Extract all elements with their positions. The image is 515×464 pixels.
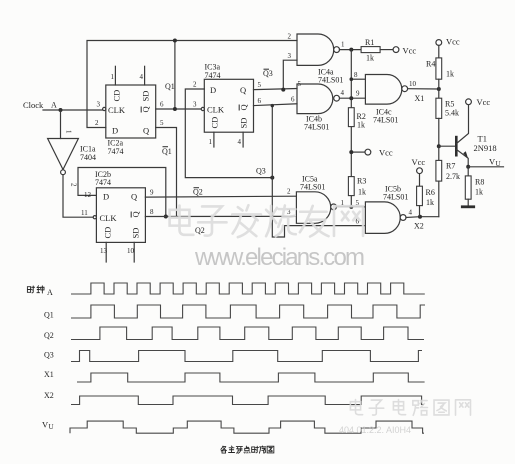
flipflop IC2a 7474 xyxy=(103,85,156,156)
svg-text:7404: 7404 xyxy=(80,153,96,162)
svg-text:7474: 7474 xyxy=(108,147,124,156)
svg-text:7474: 7474 xyxy=(95,178,111,187)
svg-text:X1: X1 xyxy=(44,370,54,379)
svg-text:12: 12 xyxy=(84,191,92,199)
svg-text:Q2: Q2 xyxy=(44,331,54,340)
svg-text:13: 13 xyxy=(100,247,108,255)
svg-text:A: A xyxy=(51,101,57,110)
svg-text:X2: X2 xyxy=(414,222,424,231)
svg-text:A: A xyxy=(47,288,53,297)
svg-text:Q: Q xyxy=(131,211,141,217)
resistor R1 1k xyxy=(361,38,393,63)
svg-text:3: 3 xyxy=(97,101,101,109)
svg-text:4: 4 xyxy=(140,73,144,81)
wire IC4a output pin 1 to R1 xyxy=(340,41,362,52)
svg-text:8: 8 xyxy=(354,71,358,79)
svg-text:2N918: 2N918 xyxy=(474,143,497,153)
svg-text:R3: R3 xyxy=(357,177,366,186)
power Vcc at R6 xyxy=(412,157,426,174)
label VU row xyxy=(42,420,54,432)
inverter U1 IC1a 7404 xyxy=(48,139,96,175)
wire IC2a pin 6 output to IC3a CLK pin 3 xyxy=(156,101,202,110)
pin stub IC2b pin10 xyxy=(127,242,135,262)
nand gate IC4b 74LS01 xyxy=(297,84,340,132)
svg-text:1: 1 xyxy=(65,130,73,134)
node Q1 vertical xyxy=(97,39,177,112)
label Q3 row xyxy=(44,351,54,360)
svg-text:CD: CD xyxy=(103,227,113,239)
waveform X2 xyxy=(71,396,424,405)
svg-text:1k: 1k xyxy=(358,188,366,197)
svg-text:SD: SD xyxy=(131,228,141,239)
label Q2 row xyxy=(44,331,54,340)
svg-text:1: 1 xyxy=(111,73,115,81)
svg-text:1k: 1k xyxy=(426,198,434,207)
wire IC4c output pin 10 to X1 node xyxy=(408,80,439,89)
watermark bottom small text xyxy=(339,425,411,435)
svg-text:CLK: CLK xyxy=(100,213,118,223)
svg-text:D: D xyxy=(112,126,118,136)
wire branch up to IC4a pin 3 xyxy=(281,52,297,92)
svg-text:Q: Q xyxy=(131,192,137,202)
svg-text:Q2: Q2 xyxy=(193,188,203,197)
pin stub IC3a pin1 xyxy=(209,132,214,147)
svg-text:6: 6 xyxy=(258,97,262,105)
svg-text:Clock: Clock xyxy=(23,100,44,110)
svg-text:Q1: Q1 xyxy=(162,147,172,156)
nand gate IC5a 74LS01 xyxy=(296,175,336,224)
svg-text:Vcc: Vcc xyxy=(403,46,417,56)
wire top feedback line Q1 to IC4a pin 2 and down to IC2a D pin 2 xyxy=(87,33,297,128)
wire IC2b pin 8 to IC5a pin 3 xyxy=(145,208,296,217)
svg-text:R7: R7 xyxy=(446,162,455,171)
svg-text:74LS01: 74LS01 xyxy=(318,76,343,85)
flipflop IC3a 7474 xyxy=(201,63,253,133)
label clock row xyxy=(47,288,53,297)
label Q3bar xyxy=(263,69,273,78)
svg-text:1: 1 xyxy=(209,138,213,146)
wire IC3a D pin 2 feedback from Q3bar node xyxy=(185,81,272,178)
svg-text:2: 2 xyxy=(287,188,291,196)
svg-text:D: D xyxy=(103,192,109,202)
svg-text:9: 9 xyxy=(150,189,154,197)
svg-text:X2: X2 xyxy=(44,391,54,400)
svg-text:10: 10 xyxy=(409,80,417,88)
nand gate IC4a 74LS01 xyxy=(297,34,343,85)
svg-text:1k: 1k xyxy=(446,70,454,79)
svg-text:R4: R4 xyxy=(426,60,435,69)
resistor R3 1k xyxy=(348,177,366,197)
svg-text:1k: 1k xyxy=(366,54,374,63)
svg-text:Q3: Q3 xyxy=(263,69,273,78)
wire IC3a pin 6 to IC4b pin 6 xyxy=(254,96,298,106)
svg-text:6: 6 xyxy=(291,96,295,104)
wire inverter output to IC2b CLK pin 11 xyxy=(63,175,93,218)
nand gate IC5b 74LS01 xyxy=(365,185,408,234)
svg-text:9: 9 xyxy=(356,90,360,98)
wire IC4b output pin 4 to IC4c pin 9 xyxy=(340,89,366,100)
wire IC5b output pin 4 to X2 line xyxy=(406,209,439,218)
wire Clock input line xyxy=(43,109,104,111)
svg-text:Vcc: Vcc xyxy=(446,37,460,47)
svg-text:74LS01: 74LS01 xyxy=(383,193,408,202)
svg-text:1k: 1k xyxy=(475,188,483,197)
watermark elecians url xyxy=(194,244,365,271)
svg-text:5: 5 xyxy=(160,119,164,127)
svg-text:74LS01: 74LS01 xyxy=(304,123,329,132)
svg-text:R1: R1 xyxy=(365,38,374,47)
pin stub IC2a pin4 SD xyxy=(140,66,145,85)
svg-text:Q: Q xyxy=(240,85,246,95)
svg-text:www.elecians.com: www.elecians.com xyxy=(194,244,365,271)
label Clock xyxy=(23,100,44,110)
svg-text:404 01.2.2. AI0H4: 404 01.2.2. AI0H4 xyxy=(339,425,411,435)
svg-text:Q3: Q3 xyxy=(256,167,266,176)
svg-text:4: 4 xyxy=(238,138,242,146)
pin stub IC2a pin1 CD xyxy=(111,66,116,85)
svg-text:CLK: CLK xyxy=(108,105,126,115)
waveform X1 xyxy=(77,373,425,382)
svg-text:Q2: Q2 xyxy=(195,226,205,235)
svg-text:Q1: Q1 xyxy=(165,82,175,91)
wire IC2b feedback loop pin 8 to D pin 12 xyxy=(78,168,168,219)
svg-text:5.4k: 5.4k xyxy=(445,109,459,118)
svg-text:8: 8 xyxy=(150,208,154,216)
svg-text:4: 4 xyxy=(341,89,345,97)
wire bus from IC4a output down to R2 R3 xyxy=(350,50,352,207)
svg-text:Vcc: Vcc xyxy=(379,148,393,158)
caption timing diagram title xyxy=(221,446,274,453)
label X1 row xyxy=(44,370,54,379)
transistor T1 2N918 xyxy=(456,105,496,167)
svg-text:Q: Q xyxy=(239,104,249,110)
power Vcc at R4 xyxy=(436,37,460,47)
waveform Q1 xyxy=(71,305,425,318)
svg-text:T1: T1 xyxy=(478,134,487,144)
node emitter output Vu xyxy=(466,157,503,169)
svg-text:U: U xyxy=(49,423,54,431)
svg-text:CD: CD xyxy=(112,90,122,102)
resistor R4 1k xyxy=(426,45,454,89)
node X1 xyxy=(415,87,441,103)
resistor R6 1k xyxy=(417,174,435,217)
svg-text:R6: R6 xyxy=(426,188,435,197)
svg-text:7474: 7474 xyxy=(205,71,221,80)
node base junction xyxy=(437,144,455,148)
wire IC2a pin 5 output Q1bar down xyxy=(156,119,177,217)
wire IC2b pin 9 to IC5a pin 2 xyxy=(145,188,296,198)
label clock row shizhong xyxy=(27,286,44,293)
wire Q3bar vertical from IC3a pin6 down and jog to IC5b pin 6 xyxy=(271,104,366,237)
svg-text:74LS01: 74LS01 xyxy=(373,116,398,125)
pin stub IC3a pin4 xyxy=(238,132,244,147)
svg-text:10: 10 xyxy=(127,247,135,255)
svg-text:IC2b: IC2b xyxy=(95,170,111,179)
waveform Q2 xyxy=(71,327,424,340)
wire A to inverter input xyxy=(61,110,73,139)
svg-text:2.7k: 2.7k xyxy=(446,172,460,181)
waveform Q3 xyxy=(71,351,422,362)
wire IC5a output pin 1 to IC5b pin 5 xyxy=(337,199,366,209)
svg-text:1k: 1k xyxy=(357,121,365,130)
ground xyxy=(461,205,475,208)
watermark big hanzi xyxy=(170,205,363,237)
wire IC3a pin 5 Q to IC4b pin 5 xyxy=(254,80,302,90)
svg-text:5: 5 xyxy=(258,81,262,89)
svg-text:4: 4 xyxy=(409,209,413,217)
waveform VU three level xyxy=(70,421,424,433)
svg-text:D: D xyxy=(210,85,216,95)
svg-text:R8: R8 xyxy=(475,178,484,187)
svg-text:2: 2 xyxy=(70,183,78,187)
svg-text:CD: CD xyxy=(210,117,220,129)
svg-text:R5: R5 xyxy=(445,100,454,109)
svg-text:74LS01: 74LS01 xyxy=(300,183,325,192)
nand gate IC4c 74LS01 xyxy=(365,75,407,125)
svg-text:11: 11 xyxy=(81,209,88,217)
svg-text:3: 3 xyxy=(193,101,197,109)
label Q2 xyxy=(195,226,205,235)
waveform clock A xyxy=(71,283,425,294)
wire tap to IC4c pin 8 xyxy=(350,71,366,81)
resistor R2 1k xyxy=(348,108,365,130)
flipflop IC2b 7474 xyxy=(81,170,145,242)
svg-text:U: U xyxy=(496,160,501,168)
svg-text:6: 6 xyxy=(160,101,164,109)
svg-text:2: 2 xyxy=(193,81,197,89)
svg-text:X1: X1 xyxy=(415,94,425,103)
svg-text:Q: Q xyxy=(143,126,149,136)
svg-text:1: 1 xyxy=(341,41,345,49)
svg-text:Q: Q xyxy=(141,106,151,112)
node A xyxy=(51,101,63,113)
svg-text:3: 3 xyxy=(288,52,292,60)
resistor R7 2.7k xyxy=(436,146,460,216)
label Q2bar xyxy=(193,188,203,197)
svg-text:2: 2 xyxy=(288,33,292,41)
svg-text:Q3: Q3 xyxy=(44,351,54,360)
svg-text:2: 2 xyxy=(95,119,99,127)
svg-text:SD: SD xyxy=(239,118,249,129)
svg-text:Vcc: Vcc xyxy=(412,157,426,167)
label Q1bar xyxy=(162,147,172,156)
svg-text:Vcc: Vcc xyxy=(477,97,491,107)
svg-text:Q1: Q1 xyxy=(44,311,54,320)
node X2 at R6 xyxy=(414,215,424,231)
power Vcc tap mid bus xyxy=(349,148,393,158)
power Vcc at R1 xyxy=(393,46,416,56)
node Q3 junction xyxy=(256,167,274,180)
resistor R8 1k xyxy=(465,167,484,206)
svg-text:SD: SD xyxy=(141,91,151,102)
resistor R5 5.4k xyxy=(436,89,459,146)
label X2 row xyxy=(44,391,54,400)
svg-text:CLK: CLK xyxy=(207,105,225,115)
pin stub IC2b pin13 xyxy=(100,242,108,262)
watermark bottom right hanzi xyxy=(350,400,470,416)
label Q1 row xyxy=(44,311,54,320)
power Vcc at collector xyxy=(466,97,491,107)
